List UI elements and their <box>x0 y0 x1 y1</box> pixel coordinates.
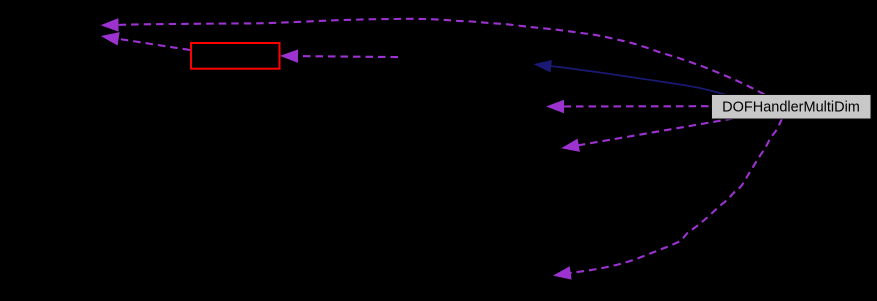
edge G: dashed usage edge into red node <box>282 50 399 62</box>
edge A: dashed usage edge from DOFHandlerMultiDim to top-left node <box>102 19 765 95</box>
edge D: dashed usage edge from DOFHandlerMultiDim bottom <box>563 119 734 152</box>
edge C: dashed usage edge from DOFHandlerMultiDim (horizontal) <box>548 101 712 113</box>
edge B: dashed usage edge from red node to top-left node <box>102 33 190 50</box>
edge F: solid inheritance edge from DOFHandlerMultiDim <box>535 61 727 95</box>
edge E: dashed usage edge from DOFHandlerMultiDim to bottom node <box>554 119 782 280</box>
svg-text:DOFHandlerMultiDim: DOFHandlerMultiDim <box>722 100 860 116</box>
node DOFHandlerMultiDim: current node box <box>712 95 872 120</box>
node: red highlighted box <box>191 43 280 69</box>
